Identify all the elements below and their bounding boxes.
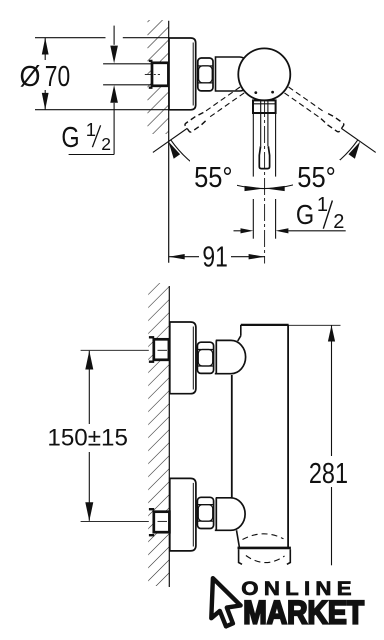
svg-text:91: 91: [202, 242, 227, 274]
svg-text:2: 2: [101, 134, 111, 154]
svg-text:Ø: Ø: [20, 61, 41, 93]
svg-text:55°: 55°: [297, 162, 336, 194]
svg-text:1: 1: [317, 194, 328, 216]
svg-text:281: 281: [309, 458, 348, 490]
svg-text:MARKET: MARKET: [243, 595, 364, 631]
svg-text:70: 70: [45, 61, 70, 93]
svg-text:55°: 55°: [194, 162, 233, 194]
svg-text:2: 2: [333, 211, 344, 233]
svg-text:1: 1: [86, 119, 96, 140]
svg-text:G: G: [296, 199, 314, 230]
svg-text:150±15: 150±15: [47, 425, 128, 452]
svg-text:G: G: [61, 122, 79, 154]
